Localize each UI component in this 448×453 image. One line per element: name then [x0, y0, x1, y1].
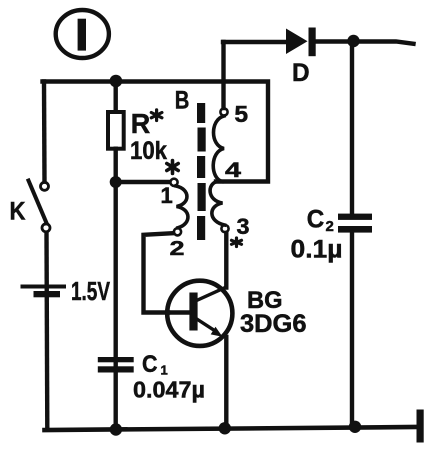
svg-text:3: 3 [237, 214, 250, 239]
svg-text:4: 4 [225, 159, 241, 182]
svg-text:R: R [131, 108, 151, 139]
svg-text:0.047µ: 0.047µ [133, 377, 205, 403]
svg-text:5: 5 [234, 101, 248, 127]
svg-text:C: C [307, 206, 325, 234]
svg-text:3DG6: 3DG6 [240, 310, 307, 338]
svg-text:B: B [175, 87, 190, 115]
svg-text:1.5V: 1.5V [71, 276, 110, 306]
svg-text:K: K [10, 198, 26, 226]
svg-text:1: 1 [161, 363, 168, 378]
svg-text:2: 2 [170, 238, 185, 260]
svg-text:C: C [142, 351, 158, 378]
svg-text:D: D [292, 59, 310, 87]
svg-text:10k: 10k [130, 137, 167, 165]
svg-text:2: 2 [326, 218, 334, 235]
svg-text:1: 1 [161, 183, 173, 208]
svg-text:0.1µ: 0.1µ [291, 236, 343, 264]
